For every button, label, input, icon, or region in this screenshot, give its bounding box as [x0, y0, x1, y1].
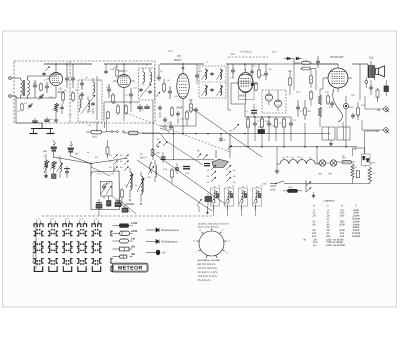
wire right col: [360, 64, 365, 109]
svg-text:1М: 1М: [17, 110, 20, 113]
bus y147: [228, 146, 357, 148]
IFT1 winding b: [88, 97, 90, 114]
trimmer T2: [43, 160, 49, 178]
wire gnd terminal down: [16, 96, 42, 123]
IFT2 cap a: [139, 88, 143, 92]
tube socket diagram: [193, 222, 230, 262]
diagonal wire D5: [166, 141, 203, 165]
antenna coil T1 secondary: [28, 76, 30, 99]
mains toggle: [306, 180, 311, 192]
drop power feeds: [277, 147, 353, 163]
vertical x208: [207, 98, 209, 138]
wire mains bus: [284, 180, 353, 184]
svg-text:C: C: [355, 204, 357, 207]
svg-text:5а 5б: 5а 5б: [94, 218, 98, 221]
lamp labels: [318, 173, 333, 176]
tuning diagonals: [112, 196, 136, 214]
resistor R37: [310, 68, 313, 88]
resistor R10: [171, 106, 174, 117]
capacitor C7: [32, 118, 38, 122]
capacitor C31: [169, 121, 173, 130]
resistor R29: [121, 188, 124, 206]
svg-text:METEOR: METEOR: [118, 266, 143, 272]
osc drops: [214, 206, 256, 216]
svg-text:5W: 5W: [131, 253, 135, 256]
ground stub v1: [54, 112, 58, 122]
capacitor C17: [158, 105, 162, 118]
junction dot rail: [207, 206, 209, 214]
component blob: [52, 169, 57, 179]
METEOR badge: [113, 263, 149, 272]
detector tube a: [265, 94, 272, 105]
jack Zv2: [68, 141, 79, 156]
resistor R24: [376, 88, 379, 102]
chassis ground symbol: [30, 123, 55, 134]
wire mains bus2: [353, 183, 370, 186]
svg-text:4,7: 4,7: [313, 244, 317, 247]
detector wires: [269, 90, 278, 100]
output transformer Tr2: [368, 61, 375, 80]
trimmer C3: [39, 94, 44, 100]
svg-text:(вид снизу, шасси): (вид снизу, шасси): [198, 226, 219, 229]
tube L3 label2: [177, 106, 183, 110]
bus y134: [142, 133, 330, 135]
diagonal wire D3: [190, 107, 262, 157]
capacitor C36: [157, 64, 161, 81]
tube L5 (6P14P): [323, 64, 352, 92]
label UPCh: [168, 50, 173, 53]
varcap C1a: [101, 183, 107, 194]
capacitor C22: [267, 117, 271, 133]
svg-text:дет.: дет.: [272, 51, 277, 54]
band ranges text: [197, 259, 221, 282]
resistor R36: [116, 64, 119, 77]
wire fan right: [91, 158, 128, 176]
IFT3 coil 2: [217, 69, 223, 80]
capacitor C9: [80, 79, 84, 90]
trimmer C3b: [24, 102, 33, 109]
pot P1 (300): [86, 130, 106, 138]
pot vol: [148, 162, 154, 174]
resistor R8: [107, 111, 110, 119]
wire v5 bottom: [345, 114, 347, 148]
capacitor C33: [353, 166, 360, 178]
resistor R28: [171, 168, 174, 183]
svg-text:1W: 1W: [131, 238, 135, 241]
trimmer T3: [57, 162, 63, 178]
osc assembly 4: [253, 186, 262, 210]
resistor R30: [351, 164, 354, 184]
contact K1: [44, 163, 48, 178]
heater chain coils: [277, 160, 319, 164]
cathode resistor R21: [318, 107, 321, 127]
wire row mid: [231, 83, 245, 104]
wire pot2 right: [142, 133, 166, 141]
tube L2 label: [113, 66, 128, 74]
label 1a2a3a: [109, 154, 123, 169]
wire x228: [228, 64, 231, 110]
diagonal wire D1: [137, 160, 212, 211]
resistor R23: [357, 102, 360, 120]
cathode resistor R4: [53, 103, 60, 112]
heater gnd: [275, 163, 279, 174]
tone network loop2: [329, 122, 350, 146]
bus mid vertical3: [244, 104, 246, 117]
capacitor C20: [264, 64, 268, 80]
tube L3 label: [174, 54, 182, 62]
IFT2 cap b: [148, 90, 152, 94]
svg-text:6К4П: 6К4П: [174, 58, 182, 62]
electrolytic C26: [343, 96, 354, 114]
wire top-left rail: [28, 75, 57, 77]
pilot lamp 1: [317, 160, 326, 166]
pot P2: [125, 131, 143, 135]
osc coil Lb: [137, 172, 144, 202]
capacitor C14: [144, 104, 150, 108]
resistor R18: [282, 117, 285, 133]
adjustment legend: [146, 228, 179, 255]
svg-text:Л6Н: Л6Н: [318, 173, 323, 176]
svg-text:Подстроечные: Подстроечные: [161, 229, 179, 232]
capacitor C12: [129, 88, 133, 102]
label det: [272, 51, 277, 54]
bus mid vertical1: [97, 118, 107, 132]
IFT3 coil 4: [217, 85, 223, 96]
tuning gang inner box: [101, 181, 113, 196]
resistor R1: [40, 83, 43, 92]
svg-text:1а 1б: 1а 1б: [36, 218, 40, 221]
svg-text:R: R: [341, 204, 343, 207]
cap dark2: [175, 163, 179, 174]
diagonal wire D2: [152, 152, 225, 204]
svg-text:Диапазоны приёма:: Диапазоны приёма:: [197, 259, 221, 262]
svg-text:30В: 30В: [258, 126, 262, 129]
switch flag: [212, 159, 229, 167]
resistor R15: [246, 117, 249, 133]
svg-text:УКВ 65,8-73 МГц: УКВ 65,8-73 МГц: [198, 275, 218, 278]
capacitor C16: [194, 107, 198, 113]
svg-text:ВЧ: ВЧ: [231, 53, 235, 56]
resistor R33: [255, 83, 258, 91]
feedback curve: [333, 89, 343, 122]
small coil L2: [80, 95, 82, 112]
switch stem: [216, 134, 232, 159]
terminal ANT: [9, 77, 16, 80]
capacitor C6: [60, 104, 64, 114]
diode D1: [284, 57, 294, 60]
switch contacts col1: [207, 165, 217, 184]
terminal GND: [9, 95, 16, 98]
tube L4 shield: [239, 82, 255, 100]
electrolytic on bus: [258, 126, 265, 135]
svg-text:1000: 1000: [339, 223, 345, 226]
label L7: [140, 153, 147, 160]
cap dark5: [251, 104, 257, 117]
contact k2: [156, 92, 160, 97]
resistor R22: [327, 94, 330, 105]
svg-text:240: 240: [339, 215, 345, 218]
capacitor C23: [289, 117, 293, 133]
trimmer blob 3: [115, 198, 121, 207]
osc assembly 3: [239, 186, 248, 210]
capacitor C32: [64, 166, 70, 178]
cap dark4: [204, 164, 210, 166]
node fan: [90, 163, 92, 176]
svg-text:6И1П: 6И1П: [140, 157, 147, 160]
output transformer Tr2 label: [369, 57, 374, 60]
tube L2 (6I1P): [118, 75, 131, 88]
resistor wattage legend: [113, 222, 138, 258]
svg-text:6Ж8: 6Ж8: [177, 106, 183, 110]
tuning gang box: [91, 171, 120, 210]
capacitor C13: [137, 104, 143, 112]
capacitor C47: [219, 134, 227, 142]
capacitor C1: [33, 80, 37, 98]
capacitor C37: [195, 64, 199, 84]
resistor R13: [301, 67, 312, 70]
capacitor C24: [296, 100, 300, 117]
resistor R5: [112, 93, 115, 104]
capacitor C28: [369, 80, 373, 95]
tube L4 label: [239, 94, 247, 98]
cap dark1: [161, 152, 166, 163]
label PCh: [240, 51, 252, 54]
svg-text:ПЧ 465кГц: ПЧ 465кГц: [240, 51, 252, 54]
IFT3 dashed box: [199, 66, 226, 98]
wire bottom rail B: [104, 102, 140, 121]
drops avc row: [248, 133, 291, 147]
IFT2 arrow: [140, 84, 151, 97]
contacts 4v: [156, 138, 168, 147]
resistor R26: [106, 140, 109, 158]
freq labels: [87, 151, 99, 159]
jack Zv1: [43, 140, 57, 158]
wire avc right: [294, 59, 316, 91]
wire V3 col: [182, 104, 184, 134]
svg-text:Тр2: Тр2: [369, 57, 374, 60]
resistor R2: [62, 91, 65, 104]
svg-text:150мФ: 150мФ: [352, 235, 360, 238]
resistor R19: [304, 100, 307, 120]
resistor R9: [163, 79, 166, 93]
wire top rail V4: [226, 63, 268, 70]
resistor R38: [310, 90, 313, 106]
resistor R34: [289, 70, 292, 95]
tube L1 label: [58, 87, 66, 94]
fuse Pr2: [337, 157, 355, 164]
padder cap: [205, 193, 212, 206]
contact left osc: [197, 199, 202, 212]
svg-text:СВ 525-1605 кГц: СВ 525-1605 кГц: [198, 267, 218, 270]
capacitor C10: [80, 92, 84, 100]
label VCh: [231, 53, 235, 56]
svg-text:ПЧ 465 кГц: ПЧ 465 кГц: [198, 279, 212, 282]
svg-text:Л5 6П14П: Л5 6П14П: [329, 55, 344, 59]
heater labels: [282, 157, 312, 160]
switch Vkl: [270, 181, 285, 192]
vertical x173: [173, 127, 175, 160]
resistor R16: [260, 117, 263, 133]
svg-text:C: C: [327, 204, 329, 207]
top rail box A: [44, 63, 92, 70]
wire zv fan2: [71, 156, 92, 164]
speaker terminal: [365, 78, 368, 89]
capacitor C34: [176, 111, 180, 124]
tube L1 pins: [47, 70, 56, 98]
switch contact matrix: [32, 218, 102, 272]
jack Zv: [377, 107, 389, 113]
wire bottom rail A: [21, 97, 57, 99]
top rail B: [104, 63, 152, 71]
speaker: [376, 66, 385, 77]
capacitor C18: [316, 56, 320, 68]
svg-text:2W: 2W: [130, 246, 135, 249]
svg-text:6И1П: 6И1П: [119, 69, 127, 73]
varcap leads: [99, 166, 114, 216]
trimmer blob 4: [122, 204, 128, 213]
wire row top: [245, 116, 291, 118]
tone network loop1: [322, 127, 335, 140]
wire long y160: [160, 159, 214, 161]
wire zv fan1: [54, 157, 92, 164]
detector dashed box: [262, 90, 286, 113]
resistor R14: [258, 64, 261, 79]
IFT3 coil 1: [202, 69, 208, 80]
rectifier D7: [362, 148, 376, 167]
svg-text:КВ 3,95-12,1 МГц: КВ 3,95-12,1 МГц: [198, 271, 219, 274]
capacitor C4 screen: [65, 63, 69, 88]
svg-text:1,5W: 1,5W: [131, 222, 138, 225]
coil L7: [155, 160, 157, 182]
trimmer blob 1: [96, 199, 102, 208]
svg-text:Зв2: Зв2: [75, 153, 80, 156]
resistor R3: [72, 91, 75, 102]
osc assembly 2: [225, 186, 234, 210]
svg-text:4а 4б: 4а 4б: [79, 218, 83, 221]
diagonal dashed D4: [126, 113, 230, 152]
contacts 5v: [197, 150, 208, 160]
switch contacts col2: [226, 165, 236, 184]
resistor R11: [190, 99, 193, 113]
svg-text:24: 24: [312, 215, 316, 218]
IFT3 coil 3: [202, 85, 208, 96]
svg-text:R: R: [313, 204, 315, 207]
capacitor C27: [351, 113, 355, 119]
resistor R12: [301, 60, 312, 65]
IFT2 winding b: [150, 68, 152, 85]
resistor R6: [117, 104, 120, 115]
component legend table: [303, 199, 360, 248]
IFT1 cap c: [91, 102, 95, 114]
IFT1 winding a: [93, 78, 95, 96]
svg-text:47КО на 470мФ: 47КО на 470мФ: [326, 244, 345, 247]
svg-text:220В: 220В: [270, 189, 276, 192]
svg-text:Подбираемые: Подбираемые: [161, 241, 178, 244]
terminals row: [106, 131, 125, 133]
wire jack1: [365, 108, 381, 110]
component value labels: [33, 61, 366, 188]
electrolytic C29: [384, 80, 389, 96]
shield box A (dashed): [14, 61, 155, 123]
capacitor C38: [250, 64, 254, 78]
svg-text:5с: 5с: [253, 65, 255, 68]
svg-text:3а 3б: 3а 3б: [65, 218, 69, 221]
diode D2: [296, 57, 302, 60]
wire jack2: [362, 120, 381, 130]
IFT3 cap: [210, 72, 213, 92]
svg-text:Л7Н: Л7Н: [328, 173, 333, 176]
wire under v3: [160, 113, 196, 126]
tube L1 (6K4): [50, 73, 63, 86]
capacitor C11b: [104, 64, 115, 74]
tube L4 (6A7): [231, 69, 258, 104]
svg-text:0,5А: 0,5А: [288, 186, 293, 189]
wire to jack Gr: [365, 131, 378, 154]
capacitor C2: [45, 82, 49, 93]
resistor R17: [274, 117, 277, 133]
trimmer T1: [50, 161, 57, 170]
capacitor C21: [253, 117, 257, 133]
antenna coil T1 primary: [16, 78, 22, 98]
detector tube b: [274, 100, 281, 111]
fuse Pr1: [283, 186, 302, 193]
IFT2 winding a: [143, 68, 145, 85]
wire IFT1 down: [96, 76, 98, 120]
tube L3 (tall): [177, 70, 189, 104]
capacitor C15: [168, 86, 172, 99]
svg-text:ДВ 150-408 кГц: ДВ 150-408 кГц: [197, 263, 217, 266]
contact volume tap: [229, 124, 239, 133]
svg-text:Зв1: Зв1: [43, 150, 48, 153]
wire left col: [46, 154, 60, 162]
grid resistor R20: [318, 78, 323, 105]
capacitor C11: [107, 84, 111, 98]
wire top rail V3: [160, 63, 204, 70]
jack Gr: [377, 128, 390, 134]
svg-text:ЗОО: ЗОО: [92, 136, 97, 139]
shield divider (dashed): [69, 61, 71, 123]
bottom dashed rail: [42, 215, 212, 217]
resistor R7: [125, 104, 128, 115]
IFT2 dashed box: [139, 68, 155, 100]
bus mid vertical2: [152, 100, 154, 160]
svg-text:Д7Ж: Д7Ж: [371, 162, 376, 165]
svg-text:6А2П: 6А2П: [239, 94, 247, 98]
resistor R31: [368, 167, 376, 184]
capacitor C19: [231, 64, 235, 78]
svg-text:2а 2б: 2а 2б: [50, 218, 54, 221]
svg-text:1М: 1М: [309, 78, 312, 81]
contact 7a: [42, 67, 49, 76]
trimmer blob 2: [107, 196, 112, 206]
osc assembly 1: [211, 186, 220, 210]
cap dark3: [183, 167, 190, 169]
matrix extra bracket: [111, 231, 114, 272]
svg-text:1/2W: 1/2W: [131, 230, 138, 233]
contacts a col: [113, 155, 129, 172]
capacitor C8: [44, 117, 50, 121]
osc coil La: [126, 168, 133, 198]
label vkl: [263, 183, 267, 186]
wire power top: [353, 148, 365, 156]
resistor R35: [17, 103, 23, 113]
capacitor C35: [163, 117, 167, 129]
antenna coil T1 core: [23, 80, 24, 96]
svg-text:+25: +25: [161, 251, 166, 254]
AVC dashed line: [228, 56, 268, 58]
IFT3 mid dashed: [199, 81, 226, 83]
wire heater bus: [316, 163, 318, 166]
